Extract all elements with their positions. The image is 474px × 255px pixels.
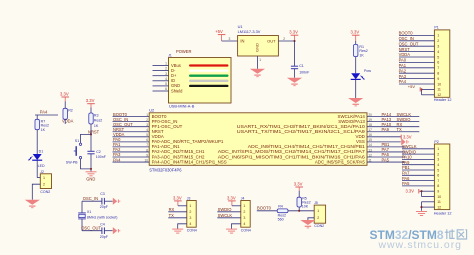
wire P1 pin 3 [399, 45, 434, 47]
svg-text:2: 2 [283, 37, 285, 41]
wire P1 pin 8 [399, 72, 434, 74]
power port 3.3V at U2 VDD [401, 134, 411, 139]
ground below J5 [300, 220, 315, 228]
svg-text:OSC_OUT: OSC_OUT [399, 41, 419, 46]
wire R7 to LED D1 [36, 130, 38, 154]
svg-text:10: 10 [437, 195, 441, 199]
wire U2 pin 4 [113, 131, 150, 133]
svg-text:2: 2 [189, 210, 191, 214]
power port 3.3V at J3 [173, 195, 182, 206]
wire below R2 [64, 119, 66, 124]
svg-text:R2: R2 [68, 109, 73, 113]
J1 pin 5 stub [153, 85, 169, 87]
svg-text:5: 5 [437, 55, 439, 59]
wire U2 pin 13 PA7 [367, 151, 405, 153]
resistor R5 body [297, 197, 301, 207]
svg-text:3.3V: 3.3V [289, 30, 298, 35]
wire J3 pin 3 [168, 217, 187, 219]
wire U2 VDD pin 16 [367, 136, 401, 138]
svg-text:SWDIO: SWDIO [218, 207, 232, 212]
wire U2 VSS pin 15 [367, 141, 401, 143]
wire P1 pin 4 [399, 51, 434, 53]
svg-text:3: 3 [243, 216, 245, 220]
power port 3.3V above R5 [294, 181, 303, 190]
svg-text:PA4: PA4 [40, 110, 48, 115]
svg-text:8: 8 [437, 184, 439, 188]
svg-text:OUT: OUT [267, 39, 276, 44]
svg-text:4: 4 [437, 163, 439, 167]
watermark CJK characters [445, 229, 467, 239]
svg-text:5: 5 [437, 168, 439, 172]
resistor R3 body [89, 113, 93, 124]
junction NRST bottom [90, 168, 92, 170]
wire U2 pin 14 PB1 [367, 146, 405, 148]
junction at U1 output [293, 40, 295, 42]
svg-text:3.3V: 3.3V [351, 30, 360, 35]
svg-text:1: 1 [243, 204, 245, 208]
wire U2 pin 12 PA6 [367, 156, 405, 158]
svg-text:C3: C3 [100, 192, 105, 196]
svg-text:SWDIO: SWDIO [402, 149, 416, 154]
svg-text:TX: TX [169, 213, 175, 218]
svg-text:7: 7 [437, 66, 439, 70]
wire U2 pin 17 to TX [367, 131, 419, 133]
P1 pin 11 stub [422, 88, 435, 90]
wire OSC_IN [82, 200, 102, 202]
wire U2 pin 9 [113, 156, 150, 158]
ground below J2 [25, 200, 40, 208]
svg-text:PA5: PA5 [402, 181, 410, 186]
push button S1 [74, 143, 82, 159]
svg-text:PA4: PA4 [399, 79, 407, 84]
wire P2 pin 5 [402, 169, 434, 171]
svg-text:C4: C4 [100, 222, 105, 226]
power port 3.3V at P2 [406, 189, 419, 194]
svg-text:X1: X1 [87, 210, 91, 214]
connector P2 body [434, 144, 449, 210]
svg-text:1: 1 [437, 147, 439, 151]
wire crystal to OSC_OUT [81, 219, 83, 231]
svg-text:4: 4 [437, 50, 439, 54]
svg-text:POWER: POWER [176, 49, 192, 54]
svg-text:J1: J1 [168, 53, 172, 57]
svg-text:CON2: CON2 [40, 190, 50, 194]
svg-text:J4: J4 [241, 196, 245, 200]
resistor R2 body [63, 108, 67, 119]
ground right of C3 [113, 198, 120, 205]
svg-text:4: 4 [165, 77, 167, 81]
capacitor C1 [291, 66, 298, 69]
wire +5V to U1 IN [222, 40, 238, 42]
svg-text:PA9: PA9 [402, 160, 410, 165]
wire U1 OUT to 3.3V node [278, 40, 294, 42]
svg-text:9: 9 [437, 190, 439, 194]
wire P1 pin 10 [399, 83, 434, 85]
J1 D- white wire-color bar [189, 69, 229, 71]
svg-text:J3: J3 [187, 196, 191, 200]
svg-text:1: 1 [189, 204, 191, 208]
ground right of C4 [113, 227, 120, 234]
svg-text:PA10: PA10 [402, 155, 412, 160]
power port 3.3V above R1 [351, 30, 360, 41]
svg-text:7: 7 [437, 179, 439, 183]
svg-text:LED: LED [38, 164, 45, 168]
svg-text:1K: 1K [359, 54, 364, 58]
wire LED to ground [355, 79, 357, 98]
svg-text:3.3V: 3.3V [173, 195, 182, 200]
svg-text:1K: 1K [94, 124, 99, 128]
svg-text:2: 2 [437, 152, 439, 156]
resistor R4 body [277, 209, 288, 213]
ground below J4 [226, 229, 237, 233]
svg-text:www.stmcu.org: www.stmcu.org [378, 240, 462, 251]
wire P2 pin 9 (3.3V) [420, 190, 435, 192]
svg-text:J5: J5 [314, 201, 318, 205]
svg-text:Pow: Pow [364, 69, 371, 73]
wire 3.3V to R2 [64, 102, 66, 109]
svg-text:3.3V: 3.3V [294, 181, 303, 186]
svg-text:PA7: PA7 [402, 171, 410, 176]
wire joining P1 pins 11-12 [421, 89, 423, 94]
svg-text:PA0: PA0 [399, 58, 407, 63]
svg-text:PA4-ADC_IN4/TIM14_CH1/SPI1_NSS: PA4-ADC_IN4/TIM14_CH1/SPI1_NSS [152, 159, 227, 164]
wire U2 pin 3 [113, 126, 150, 128]
wire U2 pin 20 to SWCLK [367, 116, 419, 118]
connector J4 body [241, 201, 250, 228]
wire OSC_OUT [82, 230, 102, 232]
power port 3.3V at J4 [227, 195, 236, 206]
wire P1 pin 6 [399, 61, 434, 63]
ground at U2 VSS [401, 138, 408, 145]
wire 3.3V to R3 [90, 108, 92, 114]
wire P2 pin 10 [422, 196, 435, 198]
wire J3 pin 4 to ground [178, 224, 187, 229]
svg-text:4: 4 [189, 222, 191, 226]
microcontroller U2 body [149, 113, 367, 166]
wire P1 pin 2 [399, 40, 434, 42]
svg-text:2: 2 [165, 67, 167, 71]
svg-text:5: 5 [165, 82, 167, 86]
svg-text:J2: J2 [40, 170, 44, 174]
wire P2 pin 4 [402, 164, 434, 166]
wire J4 pin 2 [217, 211, 241, 213]
wire P2 pin 2 [402, 153, 434, 155]
svg-text:Res2: Res2 [359, 49, 367, 53]
svg-text:10: 10 [437, 82, 441, 86]
svg-text:2: 2 [243, 210, 245, 214]
junction P1 pin 11 [420, 88, 422, 90]
svg-text:Header 12: Header 12 [434, 212, 452, 216]
svg-text:12: 12 [437, 205, 441, 209]
svg-text:1: 1 [259, 58, 261, 62]
svg-text:11: 11 [437, 200, 441, 204]
J1 pin 6 stub [153, 90, 169, 92]
svg-text:CON2: CON2 [314, 224, 324, 228]
ground below P2 [416, 212, 427, 216]
svg-text:P2: P2 [434, 140, 438, 144]
svg-text:8MHz (with socket): 8MHz (with socket) [87, 215, 118, 219]
svg-text:1: 1 [317, 209, 319, 213]
wire P2 pin 3 [402, 158, 434, 160]
svg-text:560: 560 [278, 217, 284, 221]
svg-text:GND: GND [86, 176, 95, 181]
svg-text:Shield: Shield [171, 88, 183, 93]
svg-text:PA6: PA6 [402, 176, 410, 181]
svg-text:GND: GND [254, 43, 259, 52]
svg-text:PA3: PA3 [399, 74, 407, 79]
svg-text:USB-MINI-A-B: USB-MINI-A-B [169, 103, 195, 108]
power port +5V [215, 29, 225, 41]
svg-text:VDDA: VDDA [399, 52, 411, 57]
svg-text:1: 1 [165, 62, 167, 66]
wire U2 pin 10 [113, 161, 150, 163]
wire J4 pin 1 [232, 205, 241, 207]
svg-text:11: 11 [437, 88, 441, 92]
wire P1 pin 5 [399, 56, 434, 58]
wire crystal branch vertical [81, 201, 83, 213]
wire joining P2 pins 9-10 [421, 191, 423, 196]
svg-text:LM1117-3.3V: LM1117-3.3V [238, 29, 261, 34]
svg-text:P1: P1 [434, 26, 438, 30]
ground below U1 [250, 69, 265, 77]
svg-text:RX: RX [169, 207, 175, 212]
power port 3.3V at U1 output [289, 30, 298, 41]
wire U2 pin 7 [113, 146, 150, 148]
svg-text:2: 2 [317, 216, 319, 220]
svg-text:3: 3 [229, 37, 231, 41]
power port 3.3V above R3 [86, 98, 95, 107]
wire PA4 down to R7 [36, 115, 38, 119]
wire P2 pin 7 [402, 180, 434, 182]
svg-text:TX: TX [397, 127, 403, 132]
svg-text:3: 3 [165, 72, 167, 76]
svg-text:BOOT0: BOOT0 [399, 31, 414, 36]
svg-text:C1: C1 [299, 64, 304, 68]
svg-text:2: 2 [43, 183, 45, 187]
wire J3 pin 2 [168, 211, 187, 213]
J1 pin 4 stub [153, 80, 169, 82]
wire U2 pin 5 [113, 136, 150, 138]
svg-text:VDDA: VDDA [62, 119, 74, 124]
wire PA4 horizontal [35, 114, 58, 116]
svg-text:SWCLK: SWCLK [218, 213, 233, 218]
svg-text:OSC_IN: OSC_IN [399, 36, 414, 41]
svg-text:SWCLK: SWCLK [402, 144, 417, 149]
svg-text:PA4: PA4 [113, 157, 121, 162]
power port +5V at P1 [408, 84, 422, 92]
svg-text:ADC_IN5/SPI1_SCK/PA5: ADC_IN5/SPI1_SCK/PA5 [315, 159, 366, 164]
P2 pin 12 stub [422, 206, 435, 208]
svg-text:6: 6 [165, 87, 167, 91]
wire BOOT0 to R4 [257, 210, 277, 212]
svg-text:U2: U2 [149, 108, 154, 113]
wire R3 to NRST node [90, 124, 92, 151]
svg-text:100nF: 100nF [96, 155, 107, 159]
svg-text:D1: D1 [39, 149, 44, 153]
wire 3.3V node down to C1 [294, 41, 296, 66]
svg-text:SW-PB: SW-PB [66, 160, 78, 164]
svg-text:3.3V: 3.3V [406, 189, 415, 194]
svg-text:6: 6 [437, 61, 439, 65]
svg-text:IN: IN [240, 39, 244, 44]
svg-text:R3: R3 [94, 113, 99, 117]
wire NRST to switch S1 top [81, 134, 92, 143]
connector J3 body [187, 201, 196, 228]
J5 pin 2 wire to ground [308, 218, 314, 220]
wire R4 to J5 pin 1 [288, 210, 314, 212]
svg-text:PA1: PA1 [399, 63, 407, 68]
wire U2 pin 6 [113, 141, 150, 143]
svg-text:Header 12: Header 12 [434, 98, 452, 102]
wire C1 to ground [294, 69, 296, 78]
svg-text:20pF: 20pF [100, 205, 109, 209]
wire S1 bottom to NRST bottom node [81, 159, 92, 169]
wire U2 pin 8 [113, 151, 150, 153]
P1 pin 12 stub [422, 94, 435, 96]
svg-text:2: 2 [437, 39, 439, 43]
connector J2 body [40, 174, 51, 189]
capacitor C3 [102, 198, 105, 205]
J1 pin 2 stub [153, 70, 169, 72]
svg-text:3: 3 [437, 45, 439, 49]
wire U2 pin 1 [113, 116, 150, 118]
wire J4 pin 3 [217, 217, 241, 219]
wire R1 to LED D2 [355, 57, 357, 74]
wire 3.3V to R5 [298, 191, 300, 197]
J1 pin 3 stub [153, 75, 169, 77]
svg-text:100nF: 100nF [299, 70, 310, 74]
svg-text:3: 3 [189, 216, 191, 220]
svg-text:C2: C2 [96, 150, 101, 154]
svg-text:10K: 10K [302, 205, 309, 209]
svg-text:1: 1 [437, 34, 439, 38]
svg-text:NRST: NRST [399, 47, 411, 52]
wire P2 pin 6 [402, 174, 434, 176]
LED D1 [32, 154, 42, 160]
svg-text:8: 8 [437, 72, 439, 76]
svg-text:9: 9 [437, 77, 439, 81]
wire P1 pin 9 [399, 78, 434, 80]
USB connector J1 body (POWER) [169, 58, 232, 104]
voltage regulator U1 body [238, 36, 279, 57]
J1 pin 1 stub [153, 65, 169, 67]
wire 3.3V to R1 [355, 41, 357, 44]
svg-text:3.3V: 3.3V [86, 98, 95, 103]
svg-text:USART1_TX/TIM1_CH2/TIM17_BKIN/: USART1_TX/TIM1_CH2/TIM17_BKIN/I2C1_SCL/P… [237, 129, 366, 134]
wire J3 pin 1 [178, 205, 187, 207]
J2 pin 2 wire to ground [32, 184, 40, 200]
svg-text:BOOT0: BOOT0 [257, 206, 272, 211]
wire U2 pin 11 PA5 [367, 161, 405, 163]
wire U2 pin 19 to SWDIO [367, 121, 419, 123]
LED D2 (power indicator) [351, 73, 361, 79]
capacitor C4 [102, 227, 105, 234]
wire J4 pin 4 to ground [232, 224, 241, 229]
wire P2 pin 1 [402, 148, 434, 150]
svg-text:OSC_OUT: OSC_OUT [81, 225, 101, 230]
svg-text:1: 1 [43, 176, 45, 180]
capacitor C2 on NRST line [87, 151, 94, 154]
svg-text:3.3V: 3.3V [227, 195, 236, 200]
wire C3 to ground [104, 200, 112, 202]
svg-text:1K: 1K [41, 128, 46, 132]
svg-text:PA5: PA5 [382, 157, 390, 162]
ground below C1 [287, 78, 302, 86]
svg-text:3.3V: 3.3V [403, 134, 412, 139]
wire U2 pin 2 [113, 121, 150, 123]
svg-text:NRST: NRST [88, 129, 100, 134]
svg-text:6: 6 [437, 174, 439, 178]
power port 3.3V above R2 [60, 91, 69, 101]
wire U2 pin 18 to RX [367, 126, 419, 128]
wire P1 pin 7 [399, 67, 434, 69]
svg-text:PB1: PB1 [402, 165, 410, 170]
resistor R1 body [354, 44, 358, 56]
P2 pin 11 stub [422, 201, 435, 203]
junction P2 pin 9 [420, 190, 422, 192]
wire C2 to ground node [90, 154, 92, 172]
ground below power LED [348, 98, 363, 106]
svg-text:CON4: CON4 [187, 229, 197, 233]
wire joining P2 pins 11-12 to ground [421, 202, 423, 211]
wire C4 to ground [104, 230, 112, 232]
connector J5 body [314, 205, 325, 223]
svg-text:OSC_IN: OSC_IN [83, 196, 98, 201]
svg-text:20pF: 20pF [100, 235, 109, 239]
junction BOOT0/R5 [298, 210, 300, 212]
svg-text:R4: R4 [278, 204, 283, 208]
wire R5 to BOOT0 line [298, 207, 300, 211]
U1 GND pin stub [257, 56, 259, 69]
resistor R7 body [35, 119, 39, 129]
svg-text:CON4: CON4 [241, 229, 251, 233]
ground below J3 [172, 229, 183, 233]
svg-text:+5V: +5V [408, 84, 416, 89]
svg-text:12: 12 [437, 93, 441, 97]
crystal X1 [78, 213, 86, 219]
J1 GND black wire-color bar [189, 85, 229, 87]
svg-text:Res2: Res2 [94, 119, 102, 123]
svg-text:PA9: PA9 [382, 127, 390, 132]
connector P1 body [434, 30, 449, 97]
svg-text:PA2: PA2 [399, 68, 407, 73]
junction P2 pin 12 [420, 206, 422, 208]
ground below reset circuit [86, 172, 97, 176]
svg-text:+5V: +5V [215, 29, 223, 34]
svg-text:STM32F030F4P6: STM32F030F4P6 [149, 168, 182, 173]
J1 D+ green wire-color bar [189, 75, 229, 77]
J1 ID gray wire-color bar [189, 80, 229, 82]
svg-text:3.3V: 3.3V [60, 91, 69, 96]
junction NRST top [90, 133, 92, 135]
wire P1 pin 1 [399, 34, 434, 36]
wire P2 pin 8 [402, 185, 434, 187]
wire D1 to connector J2 [36, 160, 38, 177]
J2 pin 1 stub [37, 177, 40, 179]
J1 VBus red wire-color bar [189, 64, 229, 66]
svg-text:S1: S1 [75, 139, 79, 143]
svg-text:3: 3 [437, 158, 439, 162]
svg-text:4: 4 [243, 222, 245, 226]
